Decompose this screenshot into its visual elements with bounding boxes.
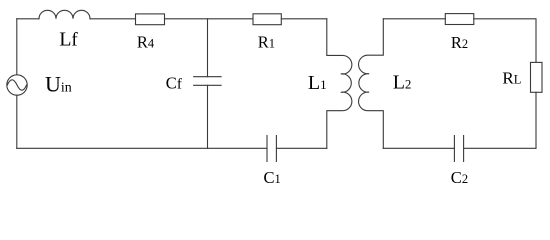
AC source Uin xyxy=(7,75,27,95)
svg-text:R2: R2 xyxy=(451,33,468,52)
wire top from source to Lf xyxy=(17,18,39,20)
svg-text:R4: R4 xyxy=(137,32,155,51)
wire C1 to L1 bottom xyxy=(276,147,326,149)
svg-text:Cf: Cf xyxy=(166,74,182,93)
inductor L1 (transformer primary) xyxy=(327,19,352,149)
svg-text:Uin: Uin xyxy=(45,72,72,97)
resistor RL xyxy=(531,62,543,92)
resistor R4 xyxy=(136,14,165,25)
wire left vertical top xyxy=(16,19,18,75)
capacitor Cf bottom lead xyxy=(207,85,209,148)
wire Lf to R4 xyxy=(90,18,136,20)
svg-text:Lf: Lf xyxy=(59,28,78,50)
capacitor C1 plates xyxy=(267,136,276,162)
wire R2 to right corner xyxy=(474,19,536,63)
capacitor Cf top lead xyxy=(207,19,209,77)
resistor R1 xyxy=(253,14,281,25)
wire RL bottom to corner xyxy=(535,92,537,148)
wire C2 to right corner xyxy=(464,147,536,149)
wire R1 to L1 xyxy=(281,18,327,20)
capacitor C2 plates xyxy=(454,136,463,162)
inductor Lf xyxy=(39,10,90,19)
sine wave inside source xyxy=(7,80,26,90)
svg-text:R1: R1 xyxy=(258,32,275,51)
svg-text:RL: RL xyxy=(502,69,521,88)
svg-text:L1: L1 xyxy=(308,72,327,94)
resistor R2 xyxy=(445,14,474,25)
wire bottom right from L2 xyxy=(383,147,454,149)
inductor L2 (transformer secondary) xyxy=(359,19,384,149)
wire R4 to node A xyxy=(165,18,254,20)
wire bottom left loop left segment xyxy=(17,147,267,149)
wire left vertical bottom xyxy=(16,95,18,148)
svg-text:C1: C1 xyxy=(264,168,281,187)
svg-text:L2: L2 xyxy=(393,72,412,94)
capacitor Cf plates xyxy=(194,77,221,86)
wire L2 top to R2 xyxy=(383,18,445,20)
svg-text:C2: C2 xyxy=(451,168,468,187)
